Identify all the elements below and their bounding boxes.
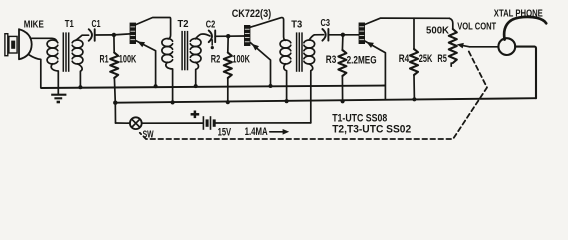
junction dot T2-rail — [194, 84, 198, 88]
node A dot — [112, 33, 116, 37]
svg-text:R5: R5 — [437, 53, 447, 65]
svg-text:500K: 500K — [426, 26, 450, 37]
junction dot R1-line2 — [113, 101, 117, 105]
svg-text:C1: C1 — [92, 18, 101, 30]
note T1 type — [332, 113, 387, 125]
transformer T2 — [162, 31, 201, 70]
switch SW — [115, 103, 141, 129]
battery 15V — [142, 116, 311, 130]
wire mike to T1 — [32, 38, 57, 41]
label R3 value 2.2MEG — [347, 54, 377, 66]
resistor R2 — [224, 36, 232, 78]
phone cord — [504, 17, 546, 40]
label R5 value 500K — [426, 26, 450, 37]
junction dot R3-line2 — [341, 99, 345, 103]
dashed link SW to volume control — [140, 52, 487, 140]
svg-text:CK722(3): CK722(3) — [232, 8, 272, 20]
svg-text:VOL CONT: VOL CONT — [457, 22, 496, 33]
svg-text:100K: 100K — [232, 54, 250, 66]
svg-text:15V: 15V — [218, 126, 232, 138]
wire R3 bottom — [341, 76, 343, 101]
wire C1 to node A — [95, 34, 114, 36]
label CK722(3) — [232, 8, 272, 20]
transistor Q3 — [359, 18, 450, 99]
wiper arrow R5 — [457, 43, 499, 49]
wire T2 secondary top to C2 — [196, 34, 211, 39]
label C2 — [206, 19, 216, 31]
junction dot R4-line2 — [412, 97, 416, 101]
label R3 — [326, 54, 337, 66]
label VOL CONT — [457, 22, 496, 33]
junction dot T3-line2 — [285, 99, 289, 103]
label C1 — [92, 18, 101, 30]
label R5 — [437, 53, 447, 65]
node B dot — [226, 34, 230, 38]
capacitor C3 — [322, 29, 328, 41]
transistor Q1 — [130, 18, 171, 87]
label R1 value 100K — [119, 54, 137, 66]
label R1 — [100, 54, 109, 66]
wire mike bottom — [29, 55, 41, 88]
wire R1 bottom — [113, 78, 116, 103]
wire T3 secondary top to C3 — [309, 35, 324, 40]
wire T3 secondary bottom to battery line — [309, 64, 313, 123]
svg-text:R1: R1 — [100, 54, 109, 66]
transformer T3 — [280, 32, 315, 71]
label R4 value 25K — [419, 53, 433, 65]
label 15V — [218, 126, 232, 138]
svg-text:XTAL PHONE: XTAL PHONE — [494, 9, 543, 20]
label MIKE — [24, 20, 44, 31]
svg-text:C2: C2 — [206, 19, 216, 31]
svg-text:C3: C3 — [321, 17, 331, 29]
svg-text:R2: R2 — [211, 54, 221, 66]
wire T3 primary bottom — [284, 64, 287, 101]
wire R2 bottom — [227, 78, 229, 102]
svg-text:T2,T3-UTC SS02: T2,T3-UTC SS02 — [332, 124, 411, 136]
svg-text:100K: 100K — [119, 54, 137, 66]
wire C3 to node C — [328, 34, 343, 36]
svg-text:2.2MEG: 2.2MEG — [347, 54, 377, 66]
potentiometer R5 — [449, 18, 457, 66]
wire T1 primary bottom — [51, 64, 58, 88]
svg-text:T3: T3 — [291, 18, 302, 30]
label battery plus — [191, 111, 200, 119]
wire T1 to C1 — [76, 35, 89, 40]
phone XTAL — [498, 38, 515, 55]
wire phone right — [515, 47, 536, 99]
svg-text:1.4MA: 1.4MA — [245, 126, 268, 138]
stray mark under C2 — [211, 40, 214, 49]
label SW — [143, 129, 154, 140]
junction dot T2-line2 — [171, 100, 175, 104]
label C3 — [321, 17, 331, 29]
current arrow — [270, 129, 289, 135]
wire node C to Q3 base — [343, 34, 359, 36]
wire T2 primary bottom — [166, 62, 173, 102]
transformer T1 — [47, 32, 83, 71]
label 1.4MA — [245, 126, 268, 138]
capacitor C1 — [89, 29, 95, 41]
label R2 value 100K — [232, 54, 250, 66]
svg-text:R3: R3 — [326, 54, 337, 66]
resistor R4 — [410, 18, 418, 75]
label T1 — [65, 18, 74, 30]
wire T1 secondary bottom — [77, 64, 82, 87]
wire C2 to node B — [215, 35, 228, 37]
label T3 — [291, 18, 302, 30]
resistor R3 — [338, 35, 346, 76]
junction dot R2-line2 — [226, 100, 230, 104]
wire T2 secondary bottom — [196, 62, 199, 86]
wire ground rail — [41, 86, 386, 89]
svg-text:25K: 25K — [419, 53, 433, 65]
junction dot T1-rail — [78, 85, 82, 89]
wire node A to Q1 base — [114, 34, 130, 35]
microphone MIKE — [5, 29, 32, 59]
label T2 — [178, 18, 189, 30]
svg-text:MIKE: MIKE — [24, 20, 44, 31]
label R2 — [211, 54, 221, 66]
ground — [51, 88, 66, 102]
wire lower bus — [115, 98, 536, 103]
note T2 T3 type — [332, 124, 411, 136]
label XTAL PHONE — [494, 9, 543, 20]
resistor R1 — [110, 35, 118, 78]
svg-text:T1: T1 — [65, 18, 74, 30]
label R4 — [399, 53, 410, 65]
junction dot Q1 emitter-rail — [154, 84, 158, 88]
capacitor C2 — [209, 31, 216, 43]
svg-text:T2: T2 — [178, 18, 189, 30]
junction dot Q2 emitter-rail — [269, 84, 273, 88]
transistor Q2 — [244, 18, 285, 86]
wire R4 bottom — [413, 75, 415, 99]
wire node B to Q2 base — [228, 35, 244, 37]
node C dot — [341, 33, 345, 37]
svg-text:R4: R4 — [399, 53, 410, 65]
